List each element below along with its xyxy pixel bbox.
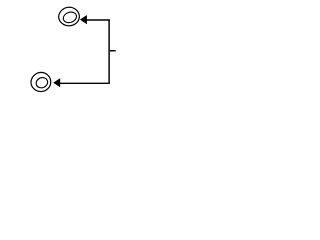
node S2 (accepting state, double ellipse): [31, 72, 51, 91]
wire right vertical segment: [108, 19, 110, 83]
arrowhead into S2: [53, 78, 60, 87]
edge label dash "-": [110, 50, 116, 52]
node S1 (accepting state, double ellipse): [59, 7, 80, 26]
wire top horizontal segment: [87, 19, 110, 21]
arrowhead into S1: [80, 15, 87, 24]
wire bottom horizontal segment: [60, 82, 110, 84]
